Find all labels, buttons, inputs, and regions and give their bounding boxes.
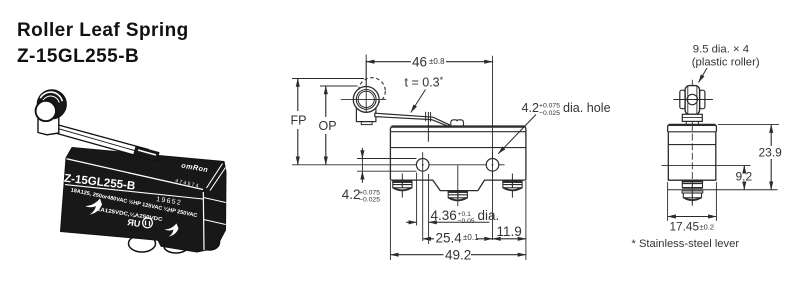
- svg-text:4.2: 4.2: [522, 101, 540, 115]
- svg-text:±0.1: ±0.1: [463, 233, 479, 242]
- photo: right face parting lines: [204, 198, 226, 225]
- photo: tread rim highlight: [40, 92, 62, 101]
- svg-text:Z-15GL255-B: Z-15GL255-B: [17, 46, 139, 67]
- photo: switch body silhouette: [61, 148, 227, 253]
- front: 4.36 dim text: [431, 208, 500, 225]
- side: fork plate right: [700, 90, 705, 109]
- side: roller pin: [687, 94, 697, 104]
- front: body outline: [390, 126, 526, 180]
- title text: [17, 20, 189, 67]
- side: 23.9 dim: [770, 125, 772, 146]
- photo: terminal screw domes under body: [129, 235, 220, 253]
- photo: lever strip fold line: [59, 129, 148, 155]
- svg-text:±0.2: ±0.2: [700, 222, 715, 231]
- front: left mounting hole: [416, 159, 429, 172]
- front: OP ref line: [320, 85, 358, 87]
- side: 9.2 dim: [743, 165, 745, 169]
- photo: top face front edge highlight: [67, 159, 204, 190]
- side: body parting line: [668, 144, 716, 146]
- side: vertical centerline: [691, 80, 693, 124]
- photo: lever strip: [57, 125, 149, 159]
- photo: lever end clip: [134, 147, 160, 162]
- side: 9.5 dia label: [692, 44, 760, 69]
- front: 4.2 dim text: [342, 187, 380, 204]
- photo: cert swoosh left: [85, 199, 102, 215]
- front: right terminal screw: [502, 174, 522, 198]
- front: 4.2 dia projection lines: [357, 159, 416, 172]
- side: terminal upper flange: [682, 180, 703, 182]
- svg-text:4.36: 4.36: [431, 208, 457, 223]
- svg-text:4.2: 4.2: [342, 187, 361, 202]
- side: 17.45 dim: [668, 216, 717, 218]
- front: FP dimension: [297, 79, 299, 112]
- svg-text:11.9: 11.9: [497, 224, 522, 239]
- photo: roller wheel tread: [39, 92, 66, 119]
- side: body: [668, 132, 716, 180]
- svg-text:+0.075: +0.075: [539, 103, 560, 110]
- photo: front face label group: [63, 173, 135, 193]
- svg-text:−0.025: −0.025: [359, 197, 380, 204]
- front: roller crosshair: [341, 60, 386, 113]
- side: 17.45 ext lines: [668, 182, 717, 221]
- front: t=0.3 leader arrow: [411, 90, 426, 113]
- front: middle terminal screw: [448, 166, 468, 207]
- front: 4.36 dim arrows: [406, 221, 417, 223]
- svg-text:FP: FP: [291, 114, 307, 128]
- photo: roller front face: [36, 101, 56, 121]
- svg-text:Roller Leaf Spring: Roller Leaf Spring: [17, 20, 189, 41]
- svg-text:49.2: 49.2: [445, 247, 471, 262]
- svg-text:23.9: 23.9: [759, 145, 783, 159]
- side: top cap: [668, 125, 717, 132]
- front: 4.2 hole dia label with leader: [522, 101, 611, 117]
- front: 4.2 dim arrows: [361, 148, 363, 159]
- front: lever arm: [375, 113, 450, 126]
- front: right mounting hole: [486, 159, 499, 172]
- svg-text:9.2: 9.2: [736, 169, 753, 183]
- svg-text:+0.1: +0.1: [458, 211, 472, 218]
- photo: right bevel stripes: [207, 164, 226, 191]
- photo: front-right edge line: [202, 192, 205, 250]
- front: plunger cap: [451, 120, 464, 126]
- svg-text:(plastic roller): (plastic roller): [692, 56, 760, 68]
- front: lever rivet marks: [426, 112, 431, 142]
- svg-text:dia. hole: dia. hole: [563, 101, 611, 115]
- svg-text:−0.025: −0.025: [539, 110, 560, 117]
- front: 49.2 ext lines: [390, 181, 526, 260]
- front: dashed circle (free position): [359, 78, 386, 105]
- side: roller crosshair: [673, 99, 713, 101]
- side: 23.9 ext line: [718, 124, 779, 126]
- side: stainless steel footnote: [632, 238, 740, 250]
- side: base plane line: [668, 189, 778, 191]
- svg-text:ЯU: ЯU: [127, 217, 141, 229]
- front: body top plate line: [390, 131, 526, 133]
- side: 9.5 leader arrow: [699, 68, 708, 83]
- svg-text:25.4: 25.4: [436, 231, 463, 246]
- side: roller inner edges: [688, 87, 697, 114]
- side: terminal lower screw: [682, 191, 703, 193]
- photo: cert swoosh right: [165, 224, 179, 237]
- front: roller vertical centerline / 46 ext left: [365, 55, 367, 113]
- front: dim 46 text: [412, 54, 445, 69]
- front: 25.4 dim: [423, 238, 434, 240]
- front: 49.2 dim: [390, 254, 443, 256]
- svg-text:* Stainless-steel lever: * Stainless-steel lever: [632, 238, 740, 250]
- svg-text:+0.075: +0.075: [359, 189, 380, 196]
- svg-text:46: 46: [412, 54, 427, 69]
- front: 11.9 dim: [493, 238, 526, 240]
- photo: CSA mark: [143, 218, 153, 228]
- side: horizontal centerline: [662, 164, 751, 166]
- front: OP dimension: [325, 86, 327, 117]
- front: t=0.3 label: [405, 75, 444, 90]
- svg-text:OP: OP: [319, 119, 337, 133]
- front: body bottom edge with notch: [390, 180, 526, 191]
- svg-text:17.45: 17.45: [670, 220, 700, 234]
- front: right hole vertical centerline / 46 ext right: [492, 56, 494, 240]
- side: roller capsule: [685, 86, 700, 115]
- svg-text:t = 0.3*: t = 0.3*: [405, 75, 444, 90]
- svg-text:9.5 dia. × 4: 9.5 dia. × 4: [693, 44, 749, 56]
- front: hole centerline: [292, 164, 505, 166]
- svg-text:±0.8: ±0.8: [429, 57, 445, 66]
- svg-text:−0.05: −0.05: [458, 218, 475, 225]
- photo: roller bracket: [38, 113, 59, 135]
- front: 4.36 ext lines: [417, 173, 429, 245]
- front: dim 46 line: [366, 61, 411, 63]
- front: roller circles: [353, 87, 379, 113]
- side: fork plate left: [680, 90, 685, 109]
- front: body parting line: [390, 147, 526, 149]
- front: FP ref line: [292, 78, 364, 80]
- front: left terminal screw: [392, 174, 412, 198]
- svg-text:dia.: dia.: [478, 208, 500, 223]
- front: roller bracket: [356, 107, 376, 122]
- side: bracket collar: [682, 114, 702, 121]
- front: body top thick edge: [392, 125, 525, 127]
